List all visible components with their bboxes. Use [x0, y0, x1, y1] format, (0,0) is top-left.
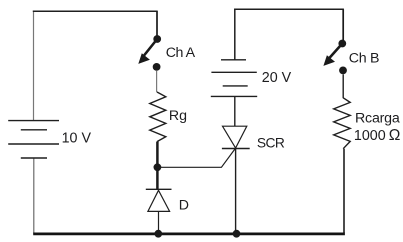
svg-text:SCR: SCR	[257, 135, 285, 150]
svg-text:D: D	[179, 198, 189, 214]
svg-text:Rg: Rg	[169, 108, 187, 124]
svg-text:Rcarga: Rcarga	[355, 110, 400, 126]
svg-text:Ch A: Ch A	[166, 45, 196, 61]
svg-text:Ω: Ω	[389, 127, 401, 144]
svg-text:10 V: 10 V	[62, 130, 92, 146]
svg-text:20 V: 20 V	[262, 70, 292, 86]
svg-text:1000: 1000	[354, 128, 386, 144]
svg-text:Ch B: Ch B	[349, 50, 379, 66]
